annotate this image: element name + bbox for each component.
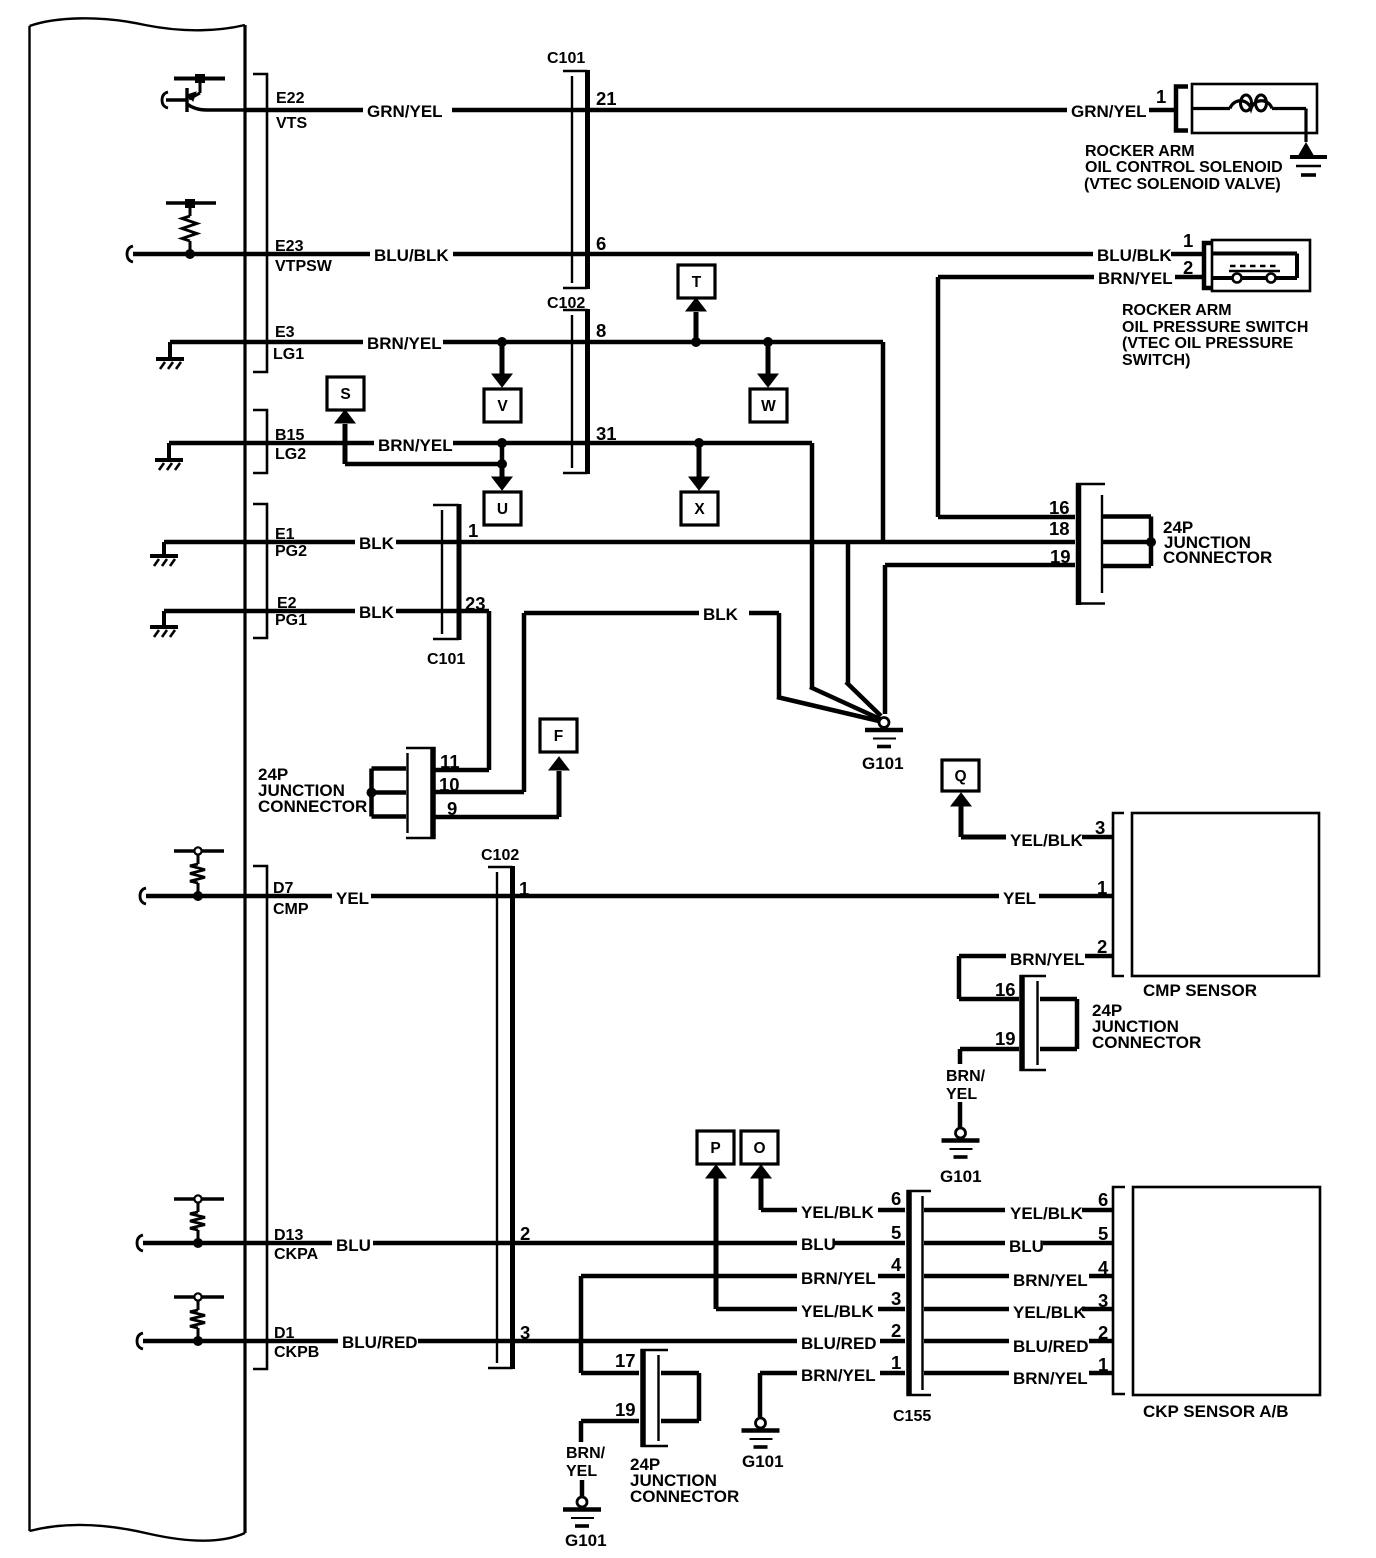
wire E3 BRN/YEL (vertical to BLK row) [881,342,886,542]
svg-text:YEL/BLK: YEL/BLK [1013,1303,1086,1322]
svg-text:BLK: BLK [359,534,395,553]
connector box T [678,265,715,298]
CKP sensor connector bracket [1113,1187,1125,1394]
CMP sensor box [1132,813,1319,976]
svg-text:ROCKER ARM: ROCKER ARM [1122,302,1232,319]
wire junction pin 19 row [581,1421,639,1442]
wire stub CKP pin 3 [1082,1307,1113,1312]
svg-text:C155: C155 [893,1408,931,1425]
wire D7 YEL (long segment) [371,894,999,899]
pin bracket E1/E2 [253,504,267,638]
svg-text:BRN/YEL: BRN/YEL [1013,1369,1088,1388]
ground at solenoid [1290,143,1327,175]
arrow to T [686,298,706,342]
24P junction connector (pins 16/18/19) [1076,483,1105,605]
rocker arm oil control solenoid box [1192,84,1317,133]
ground G101 (center) [865,718,903,747]
pin E1 PG2 label [275,526,307,560]
svg-text:G101: G101 [742,1452,784,1471]
svg-text:CKPA: CKPA [274,1246,319,1263]
wire to G101 (bottom-left) [580,1480,585,1496]
svg-text:CONNECTOR: CONNECTOR [1092,1033,1201,1052]
pin E2 PG1 label [275,595,307,629]
svg-text:VTS: VTS [276,115,307,132]
pin D7 CMP label [273,880,309,918]
svg-text:YEL/BLK: YEL/BLK [1010,1204,1083,1223]
24P junction connector (CMP, pins 16/19) [1020,975,1047,1071]
svg-text:BLU/BLK: BLU/BLK [1097,246,1172,265]
wire BRN/YEL to C155 pin 4 [878,1274,905,1279]
junction connector internal bus (right bracket) [661,1373,699,1421]
svg-text:C102: C102 [481,847,519,864]
junction dot on bus [367,788,377,798]
svg-text:LG1: LG1 [273,346,304,363]
junction dot at T arrow [691,337,701,347]
wire E2 BLK (left segment) [164,609,355,614]
svg-text:CKPB: CKPB [274,1344,319,1361]
arrow to S [335,410,355,464]
label 24P JUNCTION CONNECTOR (right) [1163,518,1272,567]
svg-text:1: 1 [891,1352,901,1373]
svg-text:16: 16 [995,979,1016,1000]
svg-text:F: F [554,728,563,745]
ground G101 (bottom-left) [563,1497,601,1526]
connector box P [697,1131,734,1164]
wire E3 BRN/YEL (left segment) [170,340,363,345]
svg-text:G101: G101 [940,1167,982,1186]
wire to junction connector pin 16 [938,515,1075,520]
wire S/U rail [345,462,502,467]
wire junction pin 10 vertical [522,613,527,792]
svg-text:BLU/RED: BLU/RED [342,1333,418,1352]
rocker arm oil pressure switch box [1212,240,1310,291]
wire to G101 (CMP) [958,1102,963,1127]
wire BLK vertical to G101 [777,613,782,699]
svg-text:5: 5 [1098,1223,1108,1244]
wire stub CKP pin 1 [1089,1371,1113,1376]
wire BLK ground row (right) [749,611,779,616]
CMP junction connector internal bus (right bracket) [1040,999,1077,1049]
chassis ground at E3 (LG1) [168,342,172,358]
svg-text:W: W [761,398,776,415]
wire junction pin 11 row [435,768,489,773]
hook at D1 wire end [137,1333,143,1349]
wire BLU/BLK to pressure switch pin 1 [1171,252,1206,257]
hook at E23 wire end [127,246,133,262]
wire CMP pin 2 BRN/YEL [959,956,1006,999]
wire BRN/YEL to C155 pin 1 [880,1371,905,1376]
wire junction pin 17 row [581,1371,639,1376]
pull-up resistor at E23 (inside ECM) [166,199,216,259]
wire pin 19 vertical to G101 [883,565,888,714]
svg-text:1: 1 [1097,877,1107,898]
wire junction pin 9 row [435,815,559,820]
svg-text:V: V [497,398,508,415]
svg-text:BRN/YEL: BRN/YEL [367,334,442,353]
ground G101 (bottom center) [742,1418,780,1447]
wire B15 BRN/YEL (left segment) [169,441,374,446]
svg-text:P: P [710,1140,720,1157]
svg-text:3: 3 [891,1288,901,1309]
svg-text:BRN/: BRN/ [566,1445,606,1462]
svg-text:19: 19 [615,1399,636,1420]
svg-text:X: X [694,501,705,518]
wire YEL/BLK pin 3 row [716,1307,797,1312]
svg-text:O: O [753,1140,765,1157]
svg-text:19: 19 [1050,546,1071,567]
svg-text:T: T [692,274,702,291]
svg-text:1: 1 [1156,86,1166,107]
wire BLK ground row [524,611,699,616]
svg-text:10: 10 [439,774,460,795]
svg-text:S: S [340,386,350,403]
svg-text:5: 5 [891,1222,901,1243]
wire BRN/YEL to pressure switch pin 2 [938,275,1094,280]
svg-text:YEL: YEL [566,1463,597,1480]
connector box X [681,492,718,525]
svg-text:BRN/YEL: BRN/YEL [801,1269,876,1288]
svg-text:(VTEC SOLENOID VALVE): (VTEC SOLENOID VALVE) [1084,176,1281,193]
wire E2 BLK vertical to junction pin 11 [487,611,492,770]
connector C101 (rows 21/6) [563,70,588,289]
svg-text:G101: G101 [862,754,904,773]
wire O to YEL/BLK pin 6 row [761,1208,797,1213]
svg-text:Q: Q [954,768,966,785]
svg-text:G101: G101 [565,1531,607,1550]
wire stub to pressure switch pin 2 [1175,275,1206,280]
svg-text:2: 2 [1183,257,1193,278]
svg-text:6: 6 [596,233,606,254]
junction dot at V arrow [497,337,507,347]
label ROCKER ARM OIL PRESSURE SWITCH [1122,302,1308,369]
pressure switch connector bracket [1204,243,1212,288]
svg-text:U: U [497,501,508,518]
svg-text:BLU/RED: BLU/RED [801,1334,877,1353]
arrow to V [492,342,512,387]
wire D13 BLU (long segment) [373,1241,797,1246]
label BRN/YEL (vertical, bottom-left) [566,1445,606,1480]
junction dot on bus [1146,537,1156,547]
wire stub CKP pin 4 [1089,1274,1113,1279]
connector box U [484,492,521,525]
svg-text:16: 16 [1049,497,1070,518]
wire stub to CMP pin 2 [1085,954,1113,959]
wire YEL to CMP pin 1 [1039,894,1113,899]
svg-text:CONNECTOR: CONNECTOR [258,797,367,816]
wire tap down to S/U rail [500,443,505,464]
svg-text:YEL/BLK: YEL/BLK [801,1203,874,1222]
svg-text:GRN/YEL: GRN/YEL [1071,102,1147,121]
wire to CMP junction connector pin 16 [959,997,1019,1002]
wire C155 pin 1 to CKP [924,1371,1009,1376]
CKP sensor box [1133,1187,1320,1395]
svg-text:BLK: BLK [359,603,395,622]
svg-text:YEL/BLK: YEL/BLK [801,1302,874,1321]
pin B15 LG2 label [275,427,306,463]
arrow from P [706,1165,726,1309]
pin E3 LG1 label [273,324,304,363]
connector C155 [907,1190,932,1396]
pin bracket B15 [253,410,267,473]
wire B15 BRN/YEL (to corner) [453,441,812,446]
svg-text:BRN/: BRN/ [946,1068,986,1085]
svg-text:4: 4 [891,1254,902,1275]
arrow from Q to YEL/BLK [951,793,1006,837]
svg-text:2: 2 [1097,936,1107,957]
svg-text:BLU: BLU [1009,1237,1044,1256]
wire junction pin 19 row [885,563,1075,568]
pin E23 VTPSW label [275,238,333,275]
svg-text:3: 3 [1095,817,1105,838]
svg-text:YEL/BLK: YEL/BLK [1010,831,1083,850]
connector box Q [942,760,979,791]
svg-text:CMP SENSOR: CMP SENSOR [1143,981,1257,1000]
wire D1 BLU/RED (left segment) [143,1339,338,1344]
svg-text:1: 1 [468,520,478,541]
connector box V [484,389,521,422]
wire BRN/YEL pin 1 row [760,1371,797,1376]
wire BLK diagonal to G101 [777,697,879,721]
wire D1 BLU/RED (long segment) [418,1339,797,1344]
pin D1 CKPB label [274,1325,319,1361]
wire stub CKP pin 6 [1082,1208,1113,1213]
pin bracket E22/E23/E3 [253,74,267,372]
svg-text:2: 2 [891,1320,901,1341]
junction connector internal bus (left bracket) [372,769,407,817]
wire BLU to CKP pin 5 [1043,1241,1113,1246]
transistor VTS driver (inside ECM) [166,74,245,112]
svg-text:BLK: BLK [703,605,739,624]
ground G101 (CMP) [942,1128,980,1157]
wire E1 BLK (to junction pin 18) [396,540,1075,545]
arrow to X [689,443,709,490]
junction dot on S/U rail [497,459,507,469]
svg-text:LG2: LG2 [275,446,306,463]
svg-text:1: 1 [1183,230,1193,251]
connector C102 (rows 8/31) [563,309,588,474]
connector C101 (rows 1/23) [433,504,459,640]
svg-text:21: 21 [596,88,617,109]
svg-text:PG1: PG1 [275,612,307,629]
chassis ground at B15 (LG2) [167,443,171,459]
wire C155 pin 3 to CKP [924,1307,1009,1312]
pressure switch contacts [1212,254,1297,283]
hook at D7 wire end [140,888,146,904]
connector box F [540,719,577,752]
svg-text:E3: E3 [275,324,295,341]
wire BLU to C155 pin 5 [834,1241,905,1246]
svg-text:19: 19 [995,1028,1016,1049]
wire E3 BRN/YEL (to corner) [443,340,883,345]
wire BRN/YEL pin 4 row [581,1276,797,1373]
hook at D13 wire end [137,1235,143,1251]
24P junction connector (pins 17/19) [641,1349,669,1447]
connector box S [327,377,364,410]
wire BLU/RED to C155 pin 2 [880,1339,905,1344]
svg-text:4: 4 [1098,1257,1109,1278]
wire stub CKP pin 2 [1089,1339,1113,1344]
wire BRN/YEL from junction connector pin 16 (vertical) [936,277,941,517]
pin E22 VTS label [276,90,307,132]
svg-text:9: 9 [447,798,457,819]
svg-text:BLU/RED: BLU/RED [1013,1337,1089,1356]
24P junction connector (pins 11/10/9) [406,747,436,839]
wire E22 GRN/YEL (middle segment) [452,108,1067,113]
wire C155 pin 6 to CKP [924,1208,1005,1213]
svg-text:31: 31 [596,423,617,444]
svg-text:23: 23 [465,593,486,614]
svg-text:CONNECTOR: CONNECTOR [1163,548,1272,567]
wire C155 pin 2 to CKP [924,1339,1009,1344]
pin D13 CKPA label [274,1227,319,1263]
wire D7 YEL (left segment) [146,894,332,899]
svg-text:BRN/YEL: BRN/YEL [1010,950,1085,969]
svg-text:1: 1 [1098,1354,1108,1375]
svg-text:BRN/YEL: BRN/YEL [801,1366,876,1385]
wire C155 pin 4 to CKP [924,1274,1009,1279]
svg-text:BLU: BLU [336,1236,371,1255]
svg-text:YEL: YEL [336,889,369,908]
connector box O [741,1131,778,1164]
svg-text:BRN/YEL: BRN/YEL [1098,269,1173,288]
wire YEL/BLK to C155 pin 6 [878,1208,905,1213]
svg-text:OIL CONTROL SOLENOID: OIL CONTROL SOLENOID [1085,159,1283,176]
svg-text:GRN/YEL: GRN/YEL [367,102,443,121]
label BRN/YEL (vertical, CMP ground) [946,1068,986,1103]
wire E23 BLU/BLK (left segment) [133,252,370,257]
wire junction pin 10 row [435,790,524,795]
wire stub to CMP pin 3 [1082,835,1113,840]
svg-text:CKP SENSOR A/B: CKP SENSOR A/B [1143,1402,1288,1421]
rocker arm oil control solenoid connector bracket [1176,87,1188,131]
connector C102 (rows 1/2/3) [488,866,513,1369]
label ROCKER ARM OIL CONTROL SOLENOID [1084,143,1283,193]
svg-text:BLU/BLK: BLU/BLK [374,246,449,265]
label 24P JUNCTION CONNECTOR (left) [258,765,367,816]
wire CMP junction connector pin 19 [960,1049,1019,1064]
wire B15 BRN/YEL (vertical to ground) [810,443,815,689]
wire pin 1 to G101 (vertical) [758,1373,763,1417]
svg-text:VTPSW: VTPSW [275,258,333,275]
ECM/PCM connector body (torn edges) [30,18,246,1540]
svg-text:2: 2 [1098,1322,1108,1343]
svg-text:CMP: CMP [273,901,309,918]
arrow to U [492,464,512,490]
svg-text:11: 11 [440,751,460,772]
svg-text:YEL: YEL [1003,889,1036,908]
svg-text:BRN/YEL: BRN/YEL [378,436,453,455]
svg-text:BRN/YEL: BRN/YEL [1013,1271,1088,1290]
junction dot at W arrow [763,337,773,347]
svg-text:6: 6 [1098,1189,1108,1210]
wire GRN/YEL to solenoid pin 1 [1149,108,1176,113]
svg-text:3: 3 [1098,1290,1108,1311]
connector box W [750,389,787,422]
arrow from O [751,1165,771,1210]
chassis ground at E2 (PG1) [162,611,166,626]
junction connector internal bus (right bracket) [1103,517,1151,567]
label 24P JUNCTION CONNECTOR (CMP) [1092,1001,1201,1052]
svg-text:(VTEC OIL PRESSURE: (VTEC OIL PRESSURE [1122,335,1294,352]
svg-text:SWITCH): SWITCH) [1122,352,1190,369]
wire E22 GRN/YEL (left segment) [245,108,363,113]
wire E1 BLK branch to ground (vertical) [846,542,851,684]
svg-text:E22: E22 [276,90,305,107]
svg-text:PG2: PG2 [275,543,307,560]
wire C155 pin 5 to CKP [924,1241,1005,1246]
pull-up resistor at D1 (inside ECM) [174,1293,224,1346]
svg-text:YEL: YEL [946,1086,977,1103]
pull-up resistor at D7 (inside ECM) [174,847,224,901]
junction dot at S/U tap [497,438,507,448]
wire B15 diagonal to G101 [810,687,880,719]
wire E1 BLK diagonal to G101 [846,682,881,716]
svg-text:ROCKER ARM: ROCKER ARM [1085,143,1195,160]
label 24P JUNCTION CONNECTOR (bottom) [630,1455,739,1506]
hook at transistor base [162,92,168,108]
svg-text:6: 6 [891,1188,901,1209]
svg-text:C101: C101 [427,651,465,668]
chassis ground at E1 (PG2) [162,542,166,555]
svg-text:C102: C102 [547,295,585,312]
svg-text:C101: C101 [547,50,585,67]
wire D13 BLU (left segment) [143,1241,332,1246]
svg-text:18: 18 [1049,518,1070,539]
svg-text:CONNECTOR: CONNECTOR [630,1487,739,1506]
svg-text:1: 1 [519,878,529,899]
CMP sensor connector bracket [1113,813,1124,976]
solenoid coil [1192,95,1306,142]
svg-text:8: 8 [596,320,606,341]
junction dot at X arrow [694,438,704,448]
wire E2 BLK (to corner) [396,609,489,614]
wire pin 9 vertical to F [549,757,569,817]
svg-text:17: 17 [615,1350,636,1371]
svg-text:OIL PRESSURE SWITCH: OIL PRESSURE SWITCH [1122,319,1308,336]
pull-up resistor at D13 (inside ECM) [174,1195,224,1248]
wire YEL/BLK to C155 pin 3 [878,1307,905,1312]
arrow to W [758,342,778,387]
svg-text:BLU: BLU [801,1235,836,1254]
wire E1 BLK row to junction pin 18 [164,540,355,545]
pin bracket D7/D13/D1 [253,866,267,1369]
wire E23 BLU/BLK (middle segment) [453,252,1093,257]
